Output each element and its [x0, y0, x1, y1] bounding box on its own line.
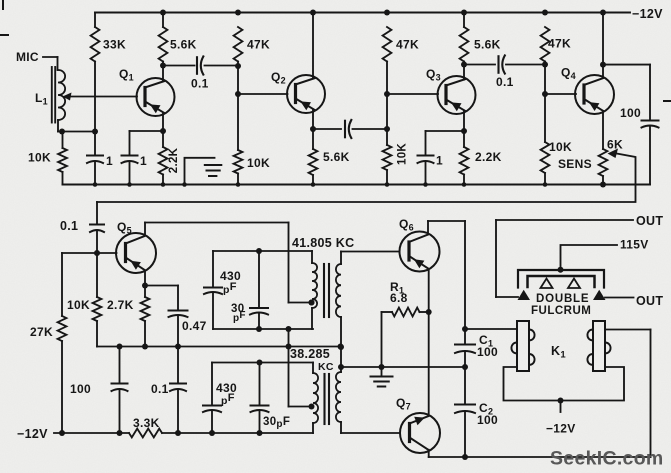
svg-text:SeekIC.com: SeekIC.com — [550, 448, 664, 470]
svg-text:−12V: −12V — [632, 7, 663, 21]
svg-text:30pF: 30pF — [263, 416, 290, 430]
svg-text:47K: 47K — [548, 37, 571, 51]
svg-text:2.2K: 2.2K — [168, 147, 180, 173]
svg-text:33K: 33K — [103, 38, 126, 52]
svg-text:3.3K: 3.3K — [133, 416, 160, 430]
svg-text:−12V: −12V — [17, 427, 48, 441]
svg-text:41.805 KC: 41.805 KC — [292, 236, 354, 250]
svg-text:47K: 47K — [247, 38, 270, 52]
svg-text:38.285: 38.285 — [290, 347, 330, 361]
svg-text:SENS: SENS — [558, 157, 592, 171]
svg-text:2.2K: 2.2K — [475, 150, 502, 164]
svg-text:115V: 115V — [620, 238, 649, 252]
svg-text:0.1: 0.1 — [191, 77, 209, 91]
svg-text:FULCRUM: FULCRUM — [531, 305, 591, 317]
svg-text:−12V: −12V — [546, 422, 576, 436]
svg-text:DOUBLE: DOUBLE — [536, 293, 589, 305]
svg-text:KC: KC — [318, 361, 334, 373]
svg-text:0.1: 0.1 — [496, 75, 514, 89]
svg-text:100: 100 — [70, 382, 91, 396]
svg-text:MIC: MIC — [16, 50, 39, 64]
svg-text:0.47: 0.47 — [182, 319, 207, 333]
svg-text:5.6K: 5.6K — [474, 38, 501, 52]
svg-text:1: 1 — [106, 154, 113, 168]
svg-text:OUT: OUT — [636, 294, 663, 308]
svg-text:1: 1 — [436, 154, 443, 168]
svg-text:2.7K: 2.7K — [107, 298, 134, 312]
svg-text:100: 100 — [477, 413, 498, 427]
svg-text:10K: 10K — [549, 140, 572, 154]
svg-text:1: 1 — [140, 154, 147, 168]
svg-text:6.8: 6.8 — [390, 291, 408, 305]
svg-text:0.1: 0.1 — [151, 382, 169, 396]
svg-text:100: 100 — [477, 345, 498, 359]
svg-text:47K: 47K — [396, 38, 419, 52]
svg-text:5.6K: 5.6K — [170, 38, 197, 52]
svg-text:27K: 27K — [30, 325, 53, 339]
svg-text:5.6K: 5.6K — [323, 150, 350, 164]
svg-text:6K: 6K — [607, 138, 623, 152]
svg-text:OUT: OUT — [636, 214, 663, 228]
svg-text:10K: 10K — [28, 151, 51, 165]
svg-text:10K: 10K — [247, 156, 270, 170]
svg-text:10K: 10K — [67, 298, 90, 312]
svg-text:100: 100 — [620, 106, 641, 120]
svg-text:10K: 10K — [397, 143, 409, 165]
svg-text:0.1: 0.1 — [60, 219, 78, 233]
